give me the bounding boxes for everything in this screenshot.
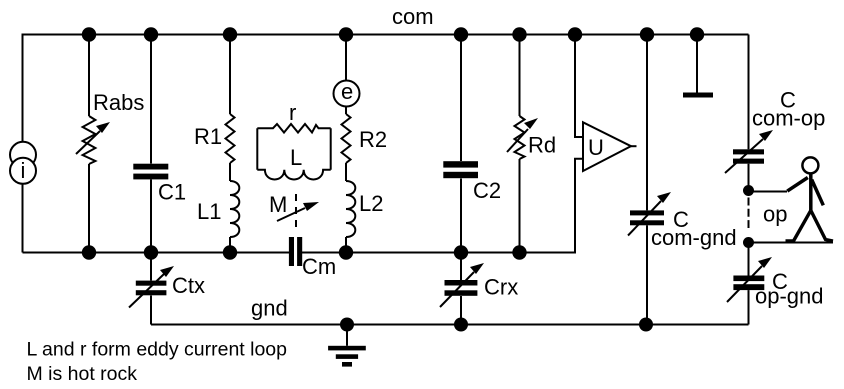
- svg-text:L1: L1: [197, 199, 221, 224]
- svg-text:Ctx: Ctx: [172, 273, 205, 298]
- svg-text:M: M: [269, 192, 287, 217]
- svg-text:M is hot rock: M is hot rock: [27, 363, 138, 385]
- svg-text:op: op: [763, 202, 787, 227]
- svg-text:L: L: [290, 145, 302, 170]
- svg-text:R1: R1: [194, 124, 222, 149]
- svg-text:gnd: gnd: [251, 296, 288, 321]
- svg-text:C2: C2: [473, 178, 501, 203]
- svg-text:r: r: [289, 100, 296, 125]
- svg-text:Rd: Rd: [528, 133, 556, 158]
- svg-text:com-op: com-op: [752, 106, 825, 131]
- svg-text:Rabs: Rabs: [93, 90, 144, 115]
- svg-text:e: e: [341, 79, 353, 104]
- svg-text:Cm: Cm: [302, 254, 336, 279]
- svg-text:L2: L2: [359, 191, 383, 216]
- svg-text:R2: R2: [359, 127, 387, 152]
- svg-text:C1: C1: [158, 180, 186, 205]
- svg-text:U: U: [588, 135, 604, 160]
- svg-text:com-gnd: com-gnd: [651, 225, 737, 250]
- svg-text:Crx: Crx: [484, 275, 518, 300]
- svg-text:op-gnd: op-gnd: [755, 284, 824, 309]
- svg-text:i: i: [21, 158, 26, 183]
- svg-text:L and r form eddy current loop: L and r form eddy current loop: [27, 339, 288, 361]
- svg-text:com: com: [392, 4, 434, 29]
